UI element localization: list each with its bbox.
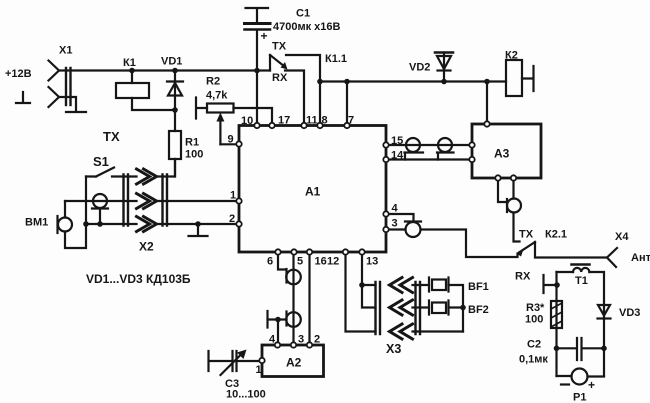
svg-text:Х3: Х3 [386,342,401,356]
svg-text:R1: R1 [185,137,199,149]
svg-text:VD1: VD1 [161,56,182,68]
svg-text:8: 8 [322,115,328,127]
svg-text:ТХ: ТХ [272,41,287,53]
svg-text:А1: А1 [305,185,321,199]
svg-text:2: 2 [229,213,235,225]
svg-text:+: + [261,29,268,43]
svg-text:10: 10 [241,115,253,127]
svg-text:VD1...VD3 КД103Б: VD1...VD3 КД103Б [86,272,191,286]
svg-text:ВМ1: ВМ1 [25,217,48,229]
svg-text:0,1мк: 0,1мк [519,354,548,366]
svg-text:S1: S1 [93,154,109,169]
svg-text:К2: К2 [505,50,518,62]
svg-text:А2: А2 [286,356,302,370]
svg-text:11: 11 [306,115,318,127]
svg-text:15: 15 [391,135,403,147]
svg-text:VD3: VD3 [619,307,640,319]
svg-text:100: 100 [185,149,203,161]
svg-text:10...100: 10...100 [226,389,266,401]
svg-text:7: 7 [348,115,354,127]
svg-text:Ант: Ант [631,252,650,264]
svg-text:К2.1: К2.1 [545,229,567,241]
svg-text:R3*: R3* [526,302,545,314]
svg-text:100: 100 [525,314,543,326]
svg-text:9: 9 [228,134,234,146]
svg-text:3: 3 [298,334,304,346]
svg-text:14: 14 [391,150,404,162]
svg-text:BF1: BF1 [468,281,489,293]
svg-text:4: 4 [269,334,276,346]
svg-text:4,7k: 4,7k [206,90,228,102]
svg-text:X4: X4 [615,231,629,243]
svg-text:Х2: Х2 [139,240,154,254]
svg-text:К1.1: К1.1 [325,53,347,65]
svg-text:RX: RX [515,271,531,283]
svg-text:2: 2 [314,334,320,346]
svg-text:ТХ: ТХ [103,129,120,144]
svg-text:RX: RX [272,72,288,84]
svg-text:VD2: VD2 [409,62,430,74]
svg-text:С2: С2 [527,339,541,351]
svg-text:C1: C1 [296,8,310,20]
svg-text:13: 13 [366,256,378,268]
svg-text:BF2: BF2 [468,304,489,316]
svg-text:4: 4 [392,203,399,215]
svg-text:6: 6 [267,256,273,268]
svg-text:P1: P1 [573,392,586,403]
svg-text:X1: X1 [59,45,72,57]
svg-text:1: 1 [230,190,236,202]
svg-text:5: 5 [297,256,303,268]
svg-text:17: 17 [278,115,290,127]
svg-text:1: 1 [256,364,262,376]
svg-text:4700мк х16В: 4700мк х16В [273,21,341,33]
svg-text:ТХ: ТХ [519,229,534,241]
svg-text:А3: А3 [494,147,510,161]
svg-text:К1: К1 [123,57,136,69]
svg-text:+12В: +12В [5,68,32,80]
svg-text:R2: R2 [206,76,220,88]
svg-text:Т1: Т1 [575,275,588,287]
svg-text:16: 16 [315,256,327,268]
svg-text:3: 3 [392,218,398,230]
svg-text:12: 12 [327,256,339,268]
svg-text:+: + [588,378,595,392]
